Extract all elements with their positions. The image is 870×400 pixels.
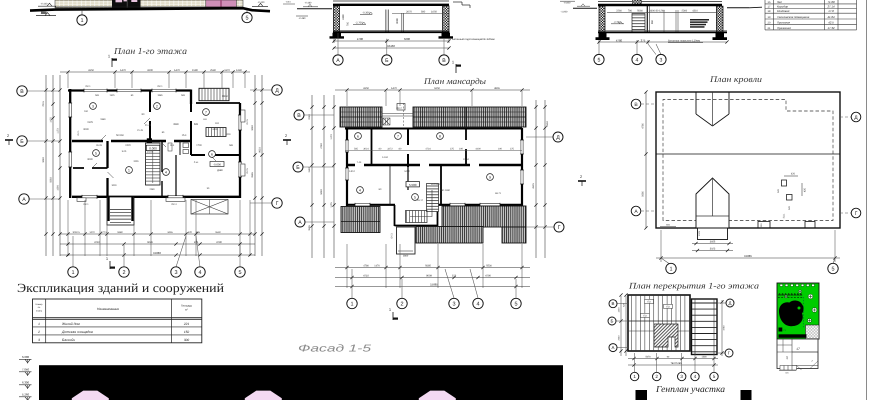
svg-text:⌀-4.54-С: ⌀-4.54-С [431, 183, 441, 186]
section 5-4-3: interior dims and notes [607, 11, 717, 13]
svg-text:2: 2 [285, 134, 287, 138]
first floor plan: section mark 1 bottom [109, 261, 111, 269]
svg-text:3: 3 [38, 338, 40, 342]
svg-text:3: 3 [174, 270, 177, 276]
sheet border right edge [866, 0, 868, 400]
first floor plan: left dimension lines [45, 75, 47, 256]
section A-B-V: left ground line and mark [297, 8, 332, 10]
attic plan: bottom dimension rows [335, 267, 530, 269]
svg-text:-0.600: -0.600 [564, 1, 571, 4]
svg-text:-0.44: -0.44 [286, 1, 292, 4]
svg-text:21.45: 21.45 [137, 129, 143, 132]
svg-text:А: А [298, 220, 302, 226]
svg-text:2: 2 [7, 134, 9, 138]
svg-text:1470: 1470 [374, 264, 380, 267]
svg-text:ОК 3: ОК 3 [391, 233, 394, 239]
first floor plan: bottom dimension rows [60, 233, 255, 235]
svg-text:4: 4 [359, 188, 361, 192]
svg-text:420: 420 [804, 187, 807, 192]
section A-B-V: right foundation footing [439, 33, 454, 39]
attic plan: top dimension row [335, 89, 530, 91]
svg-text:8: 8 [439, 134, 441, 138]
svg-text:5530: 5530 [486, 264, 492, 267]
svg-text:4780: 4780 [363, 264, 369, 267]
svg-text:1470: 1470 [89, 231, 95, 234]
svg-text:2670: 2670 [406, 11, 412, 14]
svg-text:9.05: 9.05 [122, 150, 127, 153]
svg-text:Фасад 1-5: Фасад 1-5 [298, 344, 372, 355]
attic plan: interior walls [347, 164, 522, 166]
svg-text:15885: 15885 [430, 283, 438, 287]
svg-text:3580: 3580 [173, 123, 179, 126]
first floor plan: interior walls [72, 140, 191, 143]
explication table: grid [33, 299, 202, 343]
svg-text:2420: 2420 [125, 144, 131, 147]
svg-text:-0.480: -0.480 [299, 17, 306, 20]
svg-text:6.300: 6.300 [22, 381, 29, 385]
svg-text:2480: 2480 [342, 14, 345, 20]
svg-text:-1.000: -1.000 [561, 10, 568, 13]
facade 1-5: pink window gable middle [245, 391, 282, 400]
first floor plan: door swing arcs [100, 135, 106, 141]
svg-text:870: 870 [188, 231, 193, 234]
svg-text:5: 5 [514, 301, 517, 307]
svg-text:Д: Д [275, 88, 279, 94]
svg-text:6: 6 [211, 152, 213, 156]
section 5-4-3: basement floor slab [598, 31, 727, 33]
svg-text:Г: Г [276, 201, 279, 207]
svg-text:15.4: 15.4 [182, 134, 187, 137]
ceiling plan: left slab block with joists [628, 295, 690, 351]
section 5-4-3: right ground line [727, 7, 749, 9]
facade: wall base lines [55, 6, 243, 8]
attic plan: top roof hatch band left [340, 107, 382, 127]
svg-text:1: 1 [350, 301, 353, 307]
svg-text:10460: 10460 [387, 44, 395, 48]
svg-text:Л.кл: Л.кл [194, 161, 199, 164]
svg-text:Д: Д [556, 135, 560, 141]
svg-text:3272: 3272 [387, 148, 393, 151]
svg-text:5980: 5980 [100, 118, 106, 121]
svg-text:4310: 4310 [692, 10, 698, 13]
attic plan: lower roof hatch band right lower tabs [416, 227, 483, 244]
svg-text:5: 5 [245, 16, 248, 22]
first floor plan: bathroom fixtures [183, 143, 189, 148]
first floor plan: rear canopy with cross bracing [191, 200, 228, 215]
svg-text:Б: Б [385, 58, 389, 64]
svg-text:1700: 1700 [196, 144, 202, 147]
svg-text:375: 375 [510, 148, 515, 151]
svg-text:2860: 2860 [403, 255, 409, 258]
first floor plan: entrance stair block top-right [199, 88, 229, 100]
svg-text:26.05: 26.05 [96, 144, 102, 147]
svg-text:-0.440: -0.440 [258, 1, 265, 4]
svg-text:Генплан участка: Генплан участка [655, 384, 725, 394]
facade: dark doorway with pink transom [112, 0, 141, 8]
svg-text:150: 150 [184, 330, 190, 334]
site plan: trees (white circles) [808, 294, 813, 299]
svg-text:5530: 5530 [215, 231, 221, 234]
svg-text:3080: 3080 [251, 125, 254, 131]
svg-text:Д: Д [729, 301, 732, 306]
svg-text:680 2280: 680 2280 [440, 189, 451, 192]
svg-text:4790: 4790 [216, 241, 222, 244]
svg-text:8.8: 8.8 [215, 122, 219, 125]
attic plan: balcony porch below stair bay [397, 227, 416, 254]
svg-text:ОК 4: ОК 4 [171, 203, 177, 206]
attic plan: room number circles [355, 133, 362, 140]
svg-text:Жилой дом: Жилой дом [61, 322, 80, 326]
svg-text:71.88: 71.88 [828, 0, 835, 4]
section 5-4-3: interior walls [646, 6, 648, 33]
svg-text:4965: 4965 [494, 87, 500, 90]
svg-text:1: 1 [633, 374, 636, 379]
section A-B-V: right basement wall (masonry hatch) [443, 6, 450, 33]
ceiling plan: right dimension line [721, 300, 723, 356]
svg-text:1580: 1580 [192, 69, 198, 72]
site plan: path dotted line [803, 297, 805, 328]
section A-B-V: basement floor slab [333, 31, 450, 33]
svg-text:4400: 4400 [212, 128, 218, 131]
svg-text:4: 4 [636, 57, 639, 63]
svg-text:2540: 2540 [210, 69, 216, 72]
svg-text:3080: 3080 [42, 157, 45, 163]
section 5-4-3: dense note block (floor composition) [690, 19, 709, 21]
svg-text:ОК 1: ОК 1 [83, 203, 89, 206]
svg-text:24.05: 24.05 [147, 151, 154, 154]
svg-text:Прихожая: Прихожая [777, 21, 790, 25]
section 5-4-3: stair continuing above slab (hatched) [633, 0, 642, 4]
svg-text:4710: 4710 [94, 241, 100, 244]
svg-text:2380: 2380 [149, 188, 155, 191]
svg-text:3023: 3023 [710, 248, 716, 251]
svg-text:2640: 2640 [618, 335, 621, 341]
svg-text:Детская площадка: Детская площадка [61, 330, 93, 334]
ceiling plan: left axis circles [617, 303, 628, 305]
facade 1-5 bottom strip: brick wall band [55, 0, 243, 8]
svg-text:3: 3 [660, 57, 663, 63]
svg-text:4734: 4734 [425, 148, 431, 151]
facade: axis circle 5 [246, 10, 248, 13]
svg-text:1925: 1925 [109, 94, 115, 97]
svg-text:4780: 4780 [320, 143, 323, 149]
svg-text:2: 2 [37, 330, 40, 334]
svg-text:21.45: 21.45 [145, 124, 152, 127]
svg-text:4: 4 [476, 301, 479, 307]
svg-text:585: 585 [194, 123, 199, 126]
svg-text:3030: 3030 [87, 158, 93, 161]
svg-text:3585: 3585 [308, 225, 311, 231]
svg-text:4780: 4780 [723, 325, 726, 331]
svg-text:7.44: 7.44 [357, 161, 362, 164]
svg-text:5070: 5070 [645, 356, 651, 359]
first floor plan: outer walls [68, 89, 191, 91]
ceiling plan: right beam ladder block [692, 299, 718, 355]
attic plan: section mark 1 bottom [392, 312, 394, 320]
attic plan: right dimension lines [535, 100, 537, 258]
svg-text:5680: 5680 [404, 37, 411, 41]
svg-text:5685: 5685 [425, 264, 431, 267]
section 5-4-3: right footing [713, 33, 728, 40]
svg-text:А: А [336, 58, 340, 64]
svg-text:4: 4 [694, 374, 697, 379]
svg-text:38.71: 38.71 [495, 192, 502, 195]
svg-text:м²: м² [185, 309, 188, 312]
svg-text:4780: 4780 [642, 123, 645, 129]
svg-text:-0.440: -0.440 [41, 3, 48, 6]
svg-text:780: 780 [628, 10, 633, 13]
stamp black square right [741, 390, 752, 400]
svg-text:7.040: 7.040 [22, 368, 29, 372]
svg-text:190: 190 [498, 148, 503, 151]
svg-text:3: 3 [680, 374, 683, 379]
first floor plan: corridor column [147, 138, 152, 143]
svg-text:2055: 2055 [133, 160, 139, 163]
first floor plan: room number circles [90, 103, 97, 110]
svg-text:1092.5: 1092.5 [72, 231, 80, 234]
svg-text:В: В [442, 58, 446, 64]
svg-text:4150: 4150 [363, 87, 369, 90]
svg-text:ДШК: ДШК [217, 169, 223, 172]
svg-text:1745: 1745 [361, 126, 367, 129]
first floor plan: bottom-left room divider wall [73, 167, 108, 169]
roof plan: right axis circles D G [840, 116, 851, 118]
site plan: shed black square [779, 328, 783, 332]
svg-text:5.500: 5.500 [409, 183, 417, 187]
site plan: paved honeycomb area [806, 325, 820, 339]
svg-text:26.17: 26.17 [417, 199, 424, 202]
site plan: house footprint below [777, 339, 818, 369]
svg-text:4: 4 [165, 170, 167, 174]
svg-text:Наименование: Наименование [97, 307, 119, 311]
roof plan: chimneys with 420 dims [782, 180, 787, 186]
svg-text:1: 1 [38, 322, 40, 326]
attic plan: left axis circles [304, 114, 334, 116]
first floor plan: left axis circles V B A [27, 90, 60, 92]
site plan: green lot [777, 283, 819, 339]
svg-text:-0.600: -0.600 [213, 164, 221, 167]
svg-text:275: 275 [194, 241, 199, 244]
svg-text:7: 7 [397, 134, 399, 138]
site plan: bottom black bar (road) [779, 334, 807, 338]
svg-text:17.32: 17.32 [828, 26, 835, 30]
attic plan: top roof hatch band right [413, 107, 526, 127]
svg-text:27.14: 27.14 [827, 4, 835, 8]
section 5-4-3: bottom dimension row [598, 41, 727, 43]
roof plan: porch footprint below eave [698, 228, 728, 240]
svg-text:В: В [297, 113, 301, 119]
first floor plan: top dimension row [60, 71, 250, 73]
svg-text:1090: 1090 [57, 185, 60, 191]
svg-text:Г: Г [558, 225, 561, 231]
svg-text:14.62: 14.62 [382, 156, 389, 159]
svg-text:5080: 5080 [320, 189, 323, 195]
svg-text:1650: 1650 [431, 11, 437, 14]
svg-text:7847/1085: 7847/1085 [671, 362, 683, 365]
svg-text:А: А [612, 345, 615, 350]
svg-text:1025: 1025 [698, 230, 701, 236]
svg-text:Б: Б [20, 139, 24, 145]
svg-text:13: 13 [785, 356, 789, 360]
svg-text:375: 375 [450, 148, 455, 151]
svg-text:Кладовая: Кладовая [777, 9, 790, 13]
svg-text:4780: 4780 [357, 37, 364, 41]
attic plan: right axis circles [526, 136, 553, 138]
svg-text:1300: 1300 [701, 356, 707, 359]
svg-text:5: 5 [831, 266, 834, 272]
svg-text:Прачечная: Прачечная [777, 26, 791, 30]
ceiling plan: slab panel labels [645, 299, 654, 303]
first floor plan: window sill bumps [77, 198, 86, 202]
attic plan: stair bay walls [394, 205, 396, 226]
svg-text:865: 865 [196, 231, 201, 234]
roof plan: bottom edge notches [758, 222, 770, 228]
svg-text:Экспликация зданий и сооружени: Экспликация зданий и сооружений [17, 281, 224, 295]
svg-text:2: 2 [655, 374, 658, 379]
first floor plan: 0.000 level box [146, 145, 159, 150]
svg-text:2: 2 [156, 104, 158, 108]
svg-text:42.5: 42.5 [828, 21, 834, 25]
first floor plan: right axis circles D G [250, 89, 272, 91]
svg-text:140.0: 140.0 [349, 170, 356, 173]
facade: right level mark [252, 5, 268, 7]
svg-text:221: 221 [183, 322, 190, 326]
svg-text:ОК 1: ОК 1 [157, 85, 163, 88]
attic plan: lower roof hatch band left [341, 207, 380, 233]
svg-text:ОК 5: ОК 5 [246, 119, 249, 125]
svg-text:3: 3 [452, 301, 455, 307]
section 5-4-3: left wall (masonry hatch) [599, 6, 605, 32]
svg-text:1600 80 1240: 1600 80 1240 [649, 10, 665, 13]
svg-text:1240: 1240 [236, 69, 242, 72]
section A-B-V: bottom dimension rows [333, 40, 449, 42]
svg-text:1170: 1170 [224, 69, 230, 72]
svg-text:2885: 2885 [251, 172, 254, 178]
svg-text:1: 1 [669, 266, 672, 272]
svg-text:Б: Б [296, 165, 300, 171]
svg-text:977.5: 977.5 [101, 231, 108, 234]
roof plan: top dormer valley [695, 92, 697, 114]
stamp black square left [636, 390, 648, 400]
svg-text:3030: 3030 [111, 184, 117, 187]
roof plan: inner dashed eave line [663, 100, 833, 221]
svg-text:375: 375 [452, 274, 457, 277]
svg-text:2000: 2000 [225, 133, 231, 136]
facade 1-5: pink window gable right [419, 391, 456, 400]
svg-text:3: 3 [92, 104, 94, 108]
svg-text:580: 580 [421, 11, 426, 14]
svg-text:Г: Г [855, 211, 858, 217]
svg-text:4: 4 [198, 270, 201, 276]
section 5-4-3: left ground line and level marks [573, 7, 597, 9]
svg-text:А: А [22, 197, 26, 203]
facade: left elevation level marks [38, 5, 56, 7]
facade 1-5: pink window gable left [72, 391, 109, 400]
svg-text:3111: 3111 [783, 213, 786, 218]
svg-text:План кровли: План кровли [709, 74, 763, 84]
svg-text:Площадь: Площадь [181, 305, 193, 308]
ceiling plan: hatched monolithic area [654, 324, 678, 347]
first floor plan: right dimension lines [254, 75, 256, 256]
svg-text:плану: плану [36, 309, 43, 312]
room schedule table (top right) [765, 3, 857, 5]
svg-text:1470: 1470 [391, 87, 397, 90]
svg-text:17.8: 17.8 [828, 9, 834, 13]
svg-text:7015: 7015 [42, 101, 45, 107]
svg-text:2: 2 [580, 175, 582, 179]
svg-text:1470: 1470 [120, 69, 126, 72]
svg-text:300: 300 [184, 338, 190, 342]
svg-text:360: 360 [651, 19, 654, 24]
svg-text:Бассейн: Бассейн [62, 338, 75, 342]
attic plan: 5.500 level box [406, 182, 419, 187]
svg-text:3030: 3030 [83, 128, 89, 131]
section A-B-V: middle walls [385, 10, 387, 33]
svg-text:1170: 1170 [57, 128, 60, 134]
site plan: dimension ticks below footprint [779, 370, 796, 372]
roof plan: left dimension line [645, 92, 647, 228]
svg-text:3080: 3080 [396, 18, 399, 24]
section A-B-V: left basement wall (masonry hatch) [334, 6, 340, 33]
svg-text:3585: 3585 [157, 94, 163, 97]
ceiling plan: bottom dimension rows [628, 358, 718, 360]
svg-text:17: 17 [796, 347, 800, 351]
svg-text:565: 565 [354, 148, 359, 151]
attic plan: left dimension lines [311, 95, 313, 258]
roof plan: outer outline [656, 92, 840, 228]
svg-text:6: 6 [357, 134, 359, 138]
first floor plan: windows on outer walls [84, 89, 107, 93]
svg-text:5060: 5060 [637, 10, 643, 13]
svg-text:5980: 5980 [117, 231, 123, 234]
svg-text:2260: 2260 [616, 10, 622, 13]
site plan: dashed boundary below hedge [778, 297, 803, 299]
first floor plan: entrance porch with steps [107, 197, 134, 225]
facade: pink double door [206, 0, 237, 9]
svg-text:5: 5 [414, 195, 416, 199]
svg-text:4710: 4710 [363, 274, 369, 277]
first floor plan: section mark 1 top [111, 58, 113, 67]
svg-text:Номер: Номер [36, 303, 44, 306]
svg-text:5680: 5680 [642, 191, 645, 197]
first floor plan: -0.600 level box [210, 162, 224, 167]
svg-text:4400: 4400 [475, 148, 481, 151]
svg-text:5: 5 [238, 270, 241, 276]
roof plan: bottom dimension rows [692, 243, 733, 245]
svg-text:5: 5 [713, 374, 716, 379]
svg-text:6250: 6250 [434, 87, 440, 90]
svg-text:15885: 15885 [744, 254, 752, 258]
svg-text:5.260: 5.260 [22, 393, 29, 397]
svg-text:Бетонное покрытие 120мм: Бетонное покрытие 120мм [668, 39, 700, 42]
svg-text:1000: 1000 [760, 223, 763, 229]
svg-text:ОК 2: ОК 2 [396, 107, 402, 110]
attic plan: gap dormer between hatches [397, 104, 405, 111]
svg-text:1: 1 [128, 168, 130, 172]
site plan: pond black blob [779, 301, 804, 327]
section 5-4-3: basement stair flight [632, 14, 645, 33]
attic plan: L-shaped staircase [427, 184, 439, 212]
section A-B-V: left foundation footing [330, 33, 345, 39]
svg-text:375: 375 [641, 38, 646, 42]
svg-text:4790: 4790 [485, 274, 491, 277]
svg-text:План перекрытия 1-го этажа: План перекрытия 1-го этажа [628, 281, 759, 291]
first floor plan: right wing interior stair [206, 128, 226, 137]
ceiling plan: bottom axis circles [634, 353, 636, 373]
svg-text:3024: 3024 [363, 148, 369, 151]
svg-text:3200: 3200 [147, 69, 153, 72]
svg-text:9620: 9620 [259, 147, 262, 153]
